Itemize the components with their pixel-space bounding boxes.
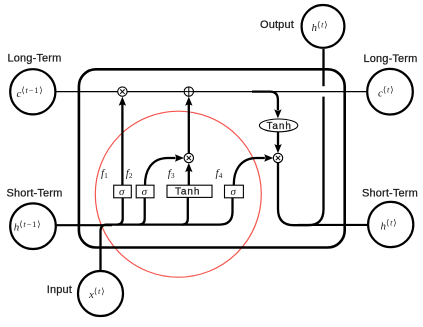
arrow Tanh ellipse to multiply node right xyxy=(277,132,279,147)
wire: cell state line c(t-1) to c(t) xyxy=(55,91,366,93)
gate box sigma f1 xyxy=(114,185,132,198)
arrow f2 sigma curve to multiply node mid xyxy=(145,158,176,185)
red highlight circle xyxy=(95,111,261,277)
svg-text:Tanh: Tanh xyxy=(175,186,200,197)
wire: h(t) exit line xyxy=(298,224,368,226)
wire: riser to sigma f1 xyxy=(117,198,123,225)
svg-text:σ: σ xyxy=(231,186,237,198)
LSTM cell box xyxy=(79,69,345,247)
svg-text:Long-Term: Long-Term xyxy=(364,53,418,65)
svg-text:σ: σ xyxy=(142,186,148,198)
arrow f1 sigma to multiply node xyxy=(121,104,123,186)
node: multiply mid (input gate) xyxy=(184,153,193,162)
gate box sigma f2 xyxy=(136,185,154,198)
gate box sigma f4 xyxy=(225,185,244,198)
svg-text:Output: Output xyxy=(260,19,294,31)
wire: gate feed line from input x(t) xyxy=(101,198,233,272)
wire: output path from multiply right, U-turn, up to h(t) output xyxy=(278,97,324,226)
node: multiply (forget) on cell line xyxy=(118,87,127,96)
circle c(t) long-term output xyxy=(367,69,413,115)
circle h(t) output top xyxy=(302,5,345,48)
wire: branch from add node to Tanh ellipse xyxy=(252,92,278,110)
svg-text:Input: Input xyxy=(47,284,72,296)
node: multiply right (output gate) xyxy=(273,153,282,162)
wire: riser to sigma f2 xyxy=(139,198,145,225)
svg-text:Tanh: Tanh xyxy=(267,121,292,132)
Tanh ellipse xyxy=(259,119,297,132)
svg-text:Long-Term: Long-Term xyxy=(8,52,62,64)
wire: h(t-1) line xyxy=(56,224,112,226)
gate box Tanh f3 xyxy=(167,185,212,197)
circle c(t-1) long-term input xyxy=(10,69,55,114)
svg-text:Short-Term: Short-Term xyxy=(7,188,63,200)
svg-text:σ: σ xyxy=(119,186,125,198)
circle x(t) input xyxy=(78,271,123,316)
wire: riser to Tanh box xyxy=(182,198,188,225)
node: add on cell line xyxy=(184,87,193,96)
svg-text:Short-Term: Short-Term xyxy=(362,188,418,200)
arrow candidate multiply to add node xyxy=(188,104,190,154)
arrow f4 sigma curve to multiply node right xyxy=(234,158,265,185)
circle h(t) short-term output xyxy=(368,202,413,247)
arrow Tanh box to multiply node mid xyxy=(188,170,190,186)
circle h(t-1) short-term input xyxy=(10,203,56,249)
